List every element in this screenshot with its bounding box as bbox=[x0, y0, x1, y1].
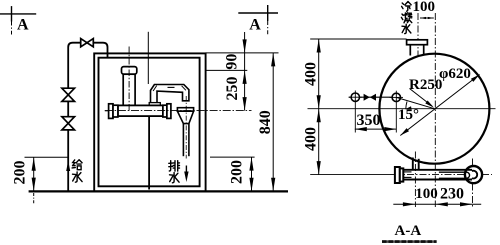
svg-text:90: 90 bbox=[224, 54, 241, 70]
svg-text:840: 840 bbox=[257, 110, 274, 134]
svg-text:15°: 15° bbox=[398, 107, 419, 123]
svg-text:A: A bbox=[17, 16, 29, 33]
svg-text:250: 250 bbox=[224, 77, 241, 101]
svg-text:A-A: A-A bbox=[395, 223, 422, 239]
svg-text:φ620: φ620 bbox=[439, 66, 471, 82]
svg-text:350: 350 bbox=[357, 112, 381, 129]
svg-text:400: 400 bbox=[302, 62, 319, 86]
svg-text:R250: R250 bbox=[409, 77, 442, 93]
svg-text:100: 100 bbox=[413, 0, 436, 15]
svg-text:A: A bbox=[249, 16, 261, 33]
svg-text:200: 200 bbox=[12, 161, 29, 185]
svg-text:400: 400 bbox=[302, 127, 319, 151]
svg-text:100: 100 bbox=[415, 186, 438, 202]
svg-text:230: 230 bbox=[440, 185, 464, 202]
svg-text:200: 200 bbox=[228, 160, 245, 184]
